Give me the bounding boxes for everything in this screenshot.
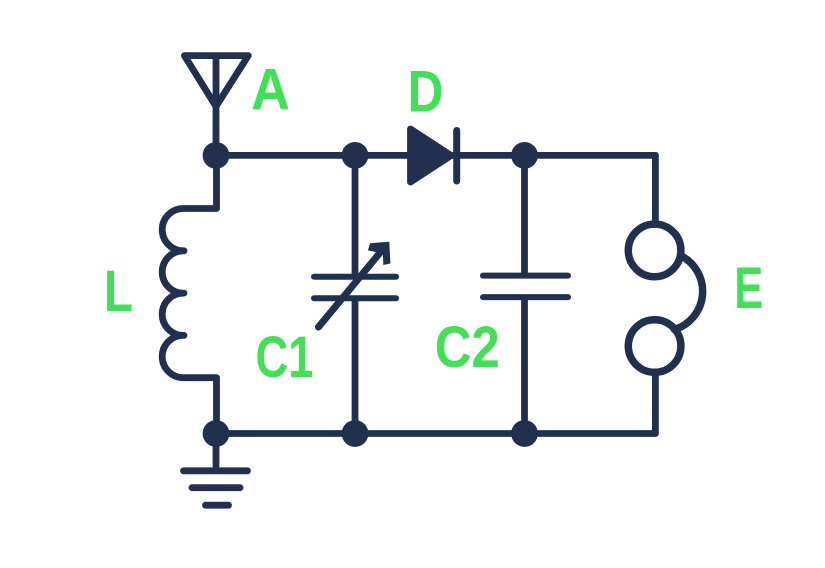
- earphone E top cup: [628, 224, 681, 277]
- ground symbol: [184, 434, 248, 506]
- earphone E band arc: [675, 256, 703, 330]
- earphone E bottom cup: [628, 320, 681, 373]
- svg-text:C1: C1: [256, 325, 314, 390]
- wire C2 branch top: [521, 155, 528, 272]
- node C2 bottom junction: [511, 420, 538, 447]
- node C1 bottom junction: [342, 420, 369, 447]
- variable capacitor C1 plates: [314, 277, 396, 299]
- capacitor C2 plates: [483, 276, 568, 298]
- variable capacitor C1 arrow: [319, 242, 391, 327]
- svg-text:L: L: [104, 259, 133, 324]
- inductor L: [162, 155, 216, 433]
- svg-text:D: D: [408, 60, 444, 125]
- svg-text:C2: C2: [435, 315, 500, 380]
- svg-text:E: E: [734, 256, 763, 321]
- wire C2 branch bottom: [521, 300, 528, 434]
- node bottom-left junction: [203, 420, 230, 447]
- wire C1 branch bottom: [352, 301, 359, 434]
- wire right branch bottom (from earphone): [652, 373, 659, 434]
- diode D: [411, 129, 457, 182]
- wire C1 branch top: [352, 155, 359, 273]
- node diode output junction: [511, 142, 538, 169]
- svg-text:A: A: [251, 58, 290, 123]
- antenna A symbol: [184, 56, 248, 156]
- wire bottom horizontal bus: [216, 430, 655, 437]
- node top-left junction: [203, 142, 230, 169]
- node C1 top junction: [342, 142, 369, 169]
- wire right branch top (to earphone): [652, 155, 659, 224]
- wire top horizontal bus: [216, 152, 655, 159]
